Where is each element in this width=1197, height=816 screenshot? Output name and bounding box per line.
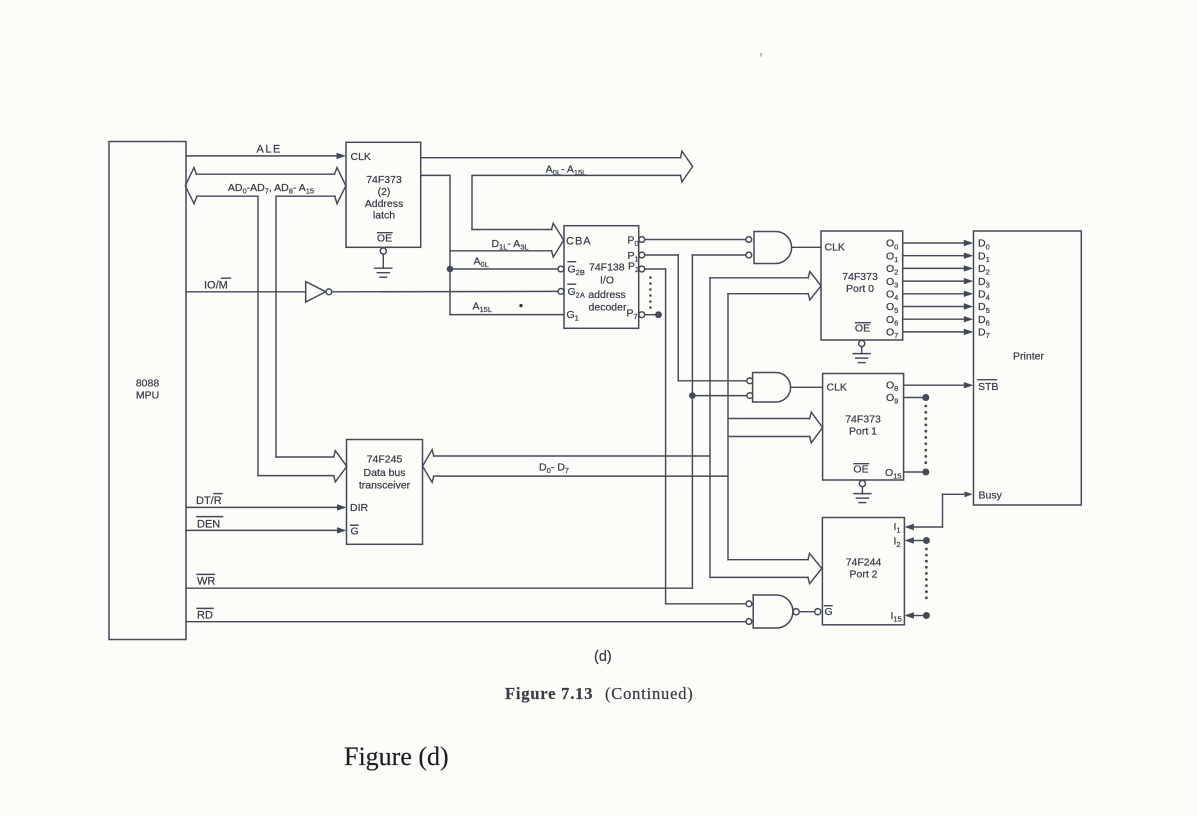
wire gate output to G of port2 bbox=[799, 611, 814, 613]
svg-text:Port 1: Port 1 bbox=[849, 426, 877, 438]
wire ALE with arrowhead into CLK of address latch bbox=[186, 144, 346, 160]
svg-text:Address: Address bbox=[365, 198, 404, 210]
bus data into Port 1 bbox=[728, 418, 810, 420]
AND gate G1 (Port 0 clock) with inverted inputs bbox=[746, 232, 792, 264]
svg-text:(d): (d) bbox=[594, 649, 612, 665]
pin P7 with bubble bbox=[627, 308, 645, 322]
svg-text:CLK: CLK bbox=[351, 151, 371, 163]
wire DEN to G bbox=[186, 517, 347, 534]
svg-text:74F373: 74F373 bbox=[842, 271, 878, 283]
bus data into Port 0 bbox=[710, 277, 808, 279]
svg-text:latch: latch bbox=[373, 210, 395, 222]
svg-text:(2): (2) bbox=[378, 186, 391, 198]
wire Busy from printer to I1 of port2 bbox=[943, 493, 967, 495]
bus D0-D7 from 74F245 right side, arrowhead pointing left bbox=[423, 450, 728, 483]
svg-text:Printer: Printer bbox=[1013, 351, 1044, 363]
svg-text:IO/M: IO/M bbox=[204, 280, 228, 292]
svg-text:DT/R: DT/R bbox=[196, 495, 222, 507]
svg-text:WR: WR bbox=[197, 576, 215, 588]
svg-text:74F373: 74F373 bbox=[366, 174, 402, 186]
svg-text:Port 0: Port 0 bbox=[846, 283, 874, 295]
pin O9 of port1 with stub and node dot bbox=[886, 392, 929, 406]
dotted line I2..I15 bbox=[925, 548, 928, 600]
svg-text:ALE: ALE bbox=[257, 144, 282, 156]
pin G (enable) bbox=[351, 525, 359, 537]
OE bubble and ground of port0 bbox=[859, 340, 865, 346]
svg-text:Data bus: Data bus bbox=[363, 467, 405, 479]
svg-text:74F138: 74F138 bbox=[589, 262, 625, 274]
wire O3 to printer D3 bbox=[903, 280, 965, 282]
pin STB of printer bbox=[978, 380, 998, 393]
bus A0L-A15L hollow arrow from latch to right bbox=[421, 151, 693, 182]
pin G2B with bubble bbox=[558, 262, 585, 277]
wire O0 to printer D0 bbox=[903, 242, 965, 244]
wire inverter output to G2A of decoder bbox=[332, 290, 558, 292]
pin G2A with bubble bbox=[558, 284, 585, 299]
node junction WR / port1 gate bbox=[689, 392, 696, 399]
OE bubble and ground of port1 bbox=[859, 480, 865, 486]
wire O2 to printer D2 bbox=[903, 267, 965, 269]
bubble G input port2 bbox=[815, 609, 821, 615]
wire D-bus right rail bbox=[727, 294, 729, 560]
latch U6 74F373 Port 1 bbox=[823, 374, 904, 481]
svg-text:address: address bbox=[588, 289, 625, 301]
dotted line O9..O15 bbox=[924, 405, 927, 465]
wire DT/R to DIR bbox=[186, 494, 347, 511]
svg-text:I/O: I/O bbox=[600, 275, 614, 287]
svg-text:74F245: 74F245 bbox=[367, 454, 403, 466]
bus arrowhead into CBA input of decoder, label D1L-A3L bbox=[552, 223, 564, 257]
wire O4 to printer D4 bbox=[903, 293, 965, 295]
svg-text:G: G bbox=[351, 526, 359, 538]
svg-text:OE: OE bbox=[853, 464, 868, 476]
wire AD-bus left rail down to 74F245 bbox=[257, 196, 259, 475]
buffer U7 74F244 Port 2 bbox=[822, 518, 904, 625]
svg-text:G: G bbox=[825, 606, 833, 618]
pin O15 of port1 with stub and node dot bbox=[885, 467, 929, 481]
bus bottom line of CBA arrow bbox=[450, 250, 552, 252]
wire gate to CLK port0 bbox=[792, 246, 821, 248]
svg-text:DEN: DEN bbox=[197, 519, 220, 531]
wire A15L to G1 bbox=[450, 301, 564, 315]
svg-text:(Continued): (Continued) bbox=[605, 684, 694, 703]
svg-text:Figure (d): Figure (d) bbox=[344, 742, 449, 771]
wire P0 to port0 AND gate bbox=[645, 239, 746, 241]
wire D-bus left rail bbox=[709, 278, 711, 578]
node P7 terminal dot bbox=[655, 311, 662, 318]
svg-text:transceiver: transceiver bbox=[359, 480, 411, 492]
bus right rail and top of CBA arrow bbox=[471, 175, 473, 229]
pin P1 with bubble bbox=[628, 250, 645, 264]
inverter (IO/M) bbox=[306, 282, 332, 302]
svg-text:D0- D7: D0- D7 bbox=[539, 462, 569, 476]
pin I15 of port2 with arrowhead, stub, node dot bbox=[891, 610, 930, 624]
svg-text:OE: OE bbox=[377, 233, 392, 245]
wire O1 to printer D1 bbox=[903, 255, 965, 257]
bus arrowhead into 74F245 left side bbox=[334, 451, 347, 482]
node junction A0L on rail bbox=[447, 266, 454, 273]
wire WR vertical rail up to AND gates bbox=[691, 255, 693, 588]
wire P2 down to port2 NAND gate bbox=[645, 268, 666, 270]
wire P7 stub bbox=[645, 314, 656, 316]
wire A0L to G2B bbox=[450, 256, 558, 270]
wire IO/M from MPU to inverter bbox=[186, 278, 306, 292]
wire O6 to printer D6 bbox=[903, 318, 965, 320]
wire O7 to printer D7 bbox=[903, 331, 965, 333]
svg-text:decoder: decoder bbox=[589, 302, 627, 314]
wire RD from MPU to NAND gate bbox=[186, 608, 746, 621]
wire O5 to printer D5 bbox=[903, 306, 965, 308]
wire AD-bus right rail down to 74F245 bbox=[275, 196, 277, 457]
pin G of port2 bbox=[825, 606, 833, 618]
bus AD0-AD7, AD8-A15 bidirectional hollow arrow between MPU and latch bbox=[185, 168, 345, 204]
NAND gate G3 (Port 2 enable) bbox=[746, 595, 799, 628]
svg-text:MPU: MPU bbox=[136, 390, 159, 402]
wire gate to CLK port1 bbox=[791, 386, 823, 388]
svg-text:74F373: 74F373 bbox=[845, 414, 881, 426]
pin P2 with bubble bbox=[628, 261, 645, 275]
svg-text:OE: OE bbox=[855, 323, 870, 335]
transceiver U4 74F245 Data bus transceiver bbox=[347, 440, 423, 545]
pin O8 of port1, wire to printer STB bbox=[886, 380, 973, 394]
svg-text:': ' bbox=[760, 50, 762, 65]
pin P0 with bubble bbox=[628, 235, 645, 249]
pin I2 of port2 with arrowhead, stub, node dot bbox=[894, 536, 930, 550]
wire A-bus left rail to decoder (A0L, A15L taps) bbox=[449, 175, 451, 314]
pin I1 of port2 with arrowhead bbox=[894, 521, 914, 535]
svg-text:74F244: 74F244 bbox=[846, 557, 882, 569]
latch U5 74F373 Port 0 bbox=[821, 231, 903, 340]
OE bubble and ground of latch bbox=[380, 248, 386, 254]
8088 MPU U1 bbox=[109, 142, 186, 640]
svg-text:Figure 7.13: Figure 7.13 bbox=[505, 684, 593, 703]
svg-text:Busy: Busy bbox=[979, 490, 1003, 502]
decoder U3 74F138 I/O address decoder bbox=[564, 226, 639, 329]
svg-text:CLK: CLK bbox=[827, 382, 847, 394]
AND gate G2 (Port 1 clock) with inverted inputs bbox=[747, 373, 791, 403]
printer box bbox=[974, 231, 1082, 505]
wire P1 down to port1 AND gate bbox=[645, 254, 679, 256]
svg-text:Port 2: Port 2 bbox=[849, 569, 877, 581]
svg-text:DIR: DIR bbox=[350, 502, 369, 514]
latch U2 74F373 (2) Address latch bbox=[346, 142, 421, 247]
svg-text:8088: 8088 bbox=[136, 378, 160, 390]
svg-text:CLK: CLK bbox=[825, 242, 845, 254]
svg-text:RD: RD bbox=[197, 610, 213, 622]
wire WR from MPU bbox=[186, 574, 692, 588]
svg-text:AD0-AD7, AD8- A15: AD0-AD7, AD8- A15 bbox=[228, 182, 314, 196]
dotted line P2..P7 inside decoder bbox=[649, 276, 652, 309]
svg-text:STB: STB bbox=[978, 381, 998, 393]
bus data from Port 2 bbox=[728, 559, 808, 561]
svg-text:CBA: CBA bbox=[566, 236, 592, 248]
